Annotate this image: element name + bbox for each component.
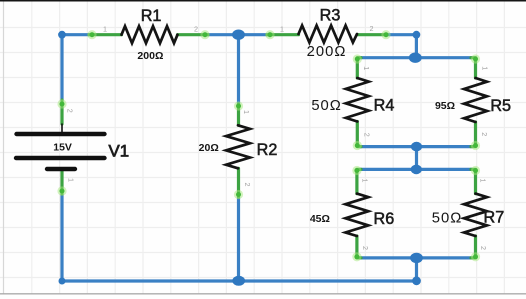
svg-text:2: 2	[66, 109, 75, 113]
svg-text:V1: V1	[109, 141, 130, 160]
svg-text:50Ω: 50Ω	[311, 98, 342, 114]
svg-text:R5: R5	[490, 97, 511, 115]
svg-text:1: 1	[481, 66, 490, 70]
svg-text:2: 2	[361, 246, 370, 250]
svg-text:2: 2	[480, 132, 489, 136]
svg-text:2: 2	[363, 133, 372, 137]
svg-text:1: 1	[479, 179, 488, 183]
svg-text:95Ω: 95Ω	[435, 100, 455, 112]
svg-text:200Ω: 200Ω	[137, 50, 163, 62]
svg-text:1: 1	[362, 66, 371, 70]
svg-text:R6: R6	[374, 210, 395, 228]
svg-text:20Ω: 20Ω	[199, 142, 219, 154]
svg-text:15V: 15V	[53, 142, 72, 154]
svg-text:2: 2	[479, 246, 488, 250]
svg-text:2: 2	[370, 24, 374, 33]
svg-text:50Ω: 50Ω	[432, 210, 463, 226]
svg-text:1: 1	[67, 178, 76, 182]
svg-text:1: 1	[280, 25, 284, 34]
svg-text:1: 1	[103, 25, 107, 34]
svg-text:45Ω: 45Ω	[310, 213, 330, 225]
svg-text:R7: R7	[484, 209, 505, 227]
svg-text:R1: R1	[141, 7, 162, 25]
svg-text:1: 1	[242, 110, 251, 114]
svg-text:2: 2	[194, 25, 198, 34]
svg-text:R2: R2	[257, 141, 278, 159]
svg-text:200Ω: 200Ω	[307, 44, 347, 60]
svg-text:R3: R3	[320, 7, 341, 25]
svg-text:1: 1	[361, 179, 370, 183]
svg-text:R4: R4	[374, 97, 395, 115]
svg-text:2: 2	[243, 183, 252, 187]
